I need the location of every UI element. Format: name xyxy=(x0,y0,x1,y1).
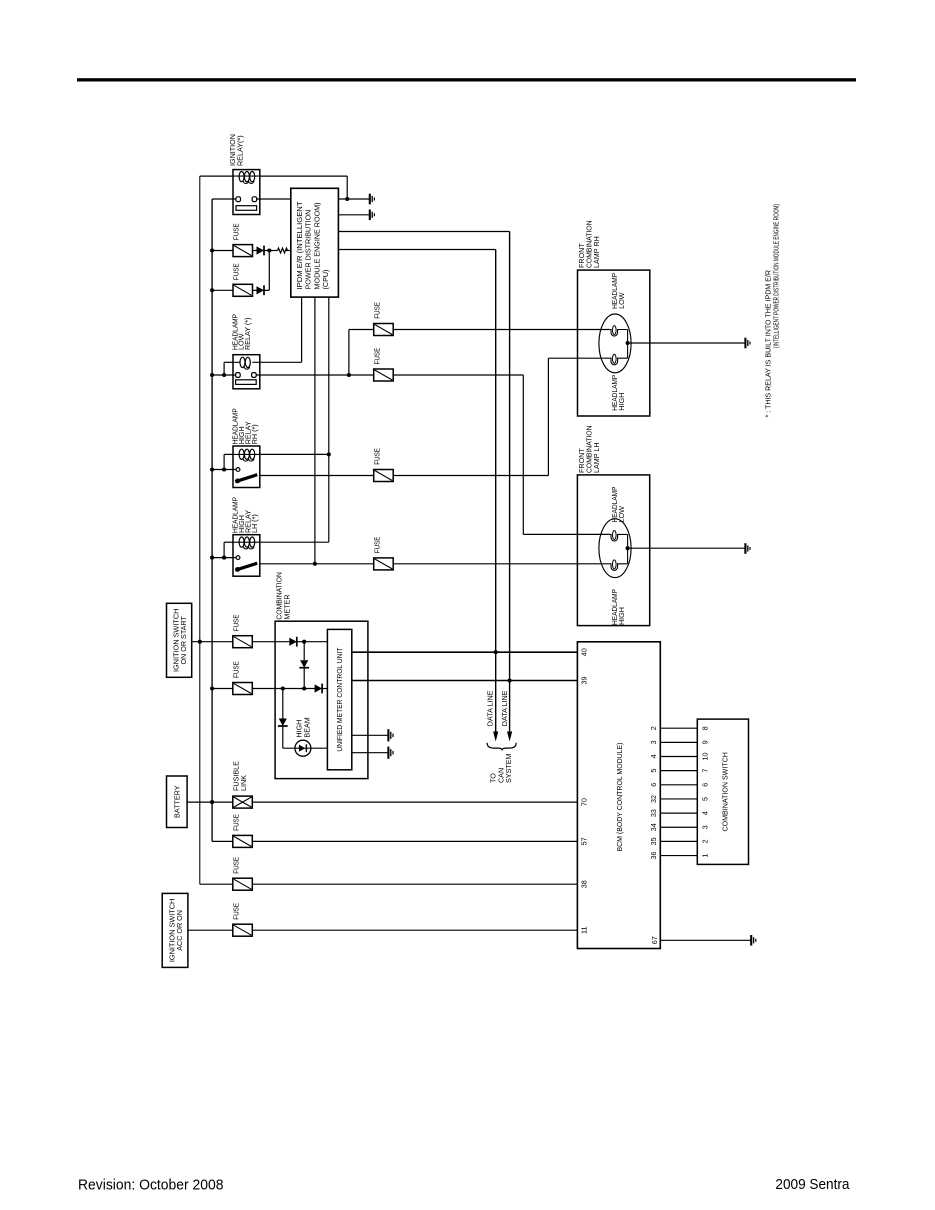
headlamp high relay LH coil xyxy=(233,541,260,543)
wire BCM pin 5 to combination switch pin 7 xyxy=(660,770,697,772)
wire fuse 11 to BCM pin 11 xyxy=(253,929,578,931)
svg-text:HIGH: HIGH xyxy=(617,393,626,411)
svg-text:36: 36 xyxy=(649,852,658,860)
junction coil feed RH xyxy=(327,452,331,456)
diode meter D3 xyxy=(315,684,323,692)
wire IPDM ground 1 xyxy=(338,198,369,200)
wire BCM pin 67 to ground xyxy=(660,939,751,941)
wire ign sw acc to fuse 11 xyxy=(188,929,233,931)
diode meter D2 down xyxy=(300,660,308,668)
combination switch box xyxy=(697,719,748,864)
wire RH relay coil stub xyxy=(224,453,233,455)
svg-text:SYSTEM: SYSTEM xyxy=(504,753,513,783)
diode high beam down xyxy=(279,719,287,727)
wire RH relay output to fuse xyxy=(260,475,374,477)
junction data line 2 row 39 xyxy=(508,678,512,682)
svg-text:LAMP RH: LAMP RH xyxy=(592,236,601,268)
ground lamp LH xyxy=(744,543,746,554)
junction RH relay stub xyxy=(222,467,226,471)
diode D1 xyxy=(257,246,265,254)
svg-text:70: 70 xyxy=(580,798,589,806)
svg-text:DATA LINE: DATA LINE xyxy=(500,690,509,726)
wire BCM pin 3 to combination switch pin 9 xyxy=(660,741,697,743)
junction coil-ground xyxy=(345,197,349,201)
headlamp high relay RH box xyxy=(233,446,260,488)
svg-text:ACC OR ON: ACC OR ON xyxy=(175,910,184,951)
svg-text:POWER DISTRIBUTION: POWER DISTRIBUTION xyxy=(304,210,313,290)
fuse meter1 xyxy=(233,636,253,648)
svg-text:(INTELLIGENT POWER DISTRIBUTIO: (INTELLIGENT POWER DISTRIBUTION MODULE E… xyxy=(771,204,780,348)
headlamp high relay RH coil xyxy=(233,453,260,455)
svg-text:38: 38 xyxy=(580,880,589,888)
wire ignition relay contact left to rail A2 xyxy=(212,198,236,200)
wire BCM pin 32 to combination switch pin 5 xyxy=(660,798,697,800)
svg-text:UNIFIED METER CONTROL UNIT: UNIFIED METER CONTROL UNIT xyxy=(335,647,344,752)
headlamp high relay RH contact xyxy=(236,468,240,472)
junction A2 LH relay xyxy=(210,556,214,560)
svg-text:57: 57 xyxy=(580,837,589,845)
svg-text:FUSE: FUSE xyxy=(372,448,381,465)
top horizontal rule xyxy=(77,78,856,81)
svg-text:32: 32 xyxy=(649,795,658,803)
svg-text:11: 11 xyxy=(580,926,589,933)
svg-text:10: 10 xyxy=(700,753,709,761)
junction A2 low relay xyxy=(210,373,214,377)
junction meter D1 xyxy=(302,640,306,644)
wire fuse LH low to jog xyxy=(393,374,523,376)
svg-text:FUSE: FUSE xyxy=(231,814,240,831)
svg-text:3: 3 xyxy=(700,825,709,829)
svg-text:34: 34 xyxy=(649,823,658,831)
data line arrow 1 xyxy=(493,732,498,742)
svg-text:LAMP LH: LAMP LH xyxy=(592,442,601,473)
ground IPDM 2 xyxy=(369,210,371,221)
svg-text:(CPU): (CPU) xyxy=(321,270,330,290)
svg-text:FUSE: FUSE xyxy=(372,302,381,319)
ignition relay contacts xyxy=(236,197,241,202)
junction A2 battery xyxy=(210,800,214,804)
headlamp high relay LH box xyxy=(233,535,260,577)
wire meter output 39 xyxy=(352,680,578,682)
svg-text:3: 3 xyxy=(649,740,658,744)
svg-text:9: 9 xyxy=(700,740,709,744)
wire low relay output xyxy=(256,374,374,376)
wire LH relay coil stub xyxy=(224,541,233,543)
fuse 57 xyxy=(233,835,253,847)
wire RH high jog xyxy=(547,358,549,475)
front combination lamp RH box xyxy=(578,270,650,416)
svg-text:40: 40 xyxy=(580,648,589,656)
fuse LH low xyxy=(374,369,394,381)
front combination lamp LH box xyxy=(577,475,649,626)
headlamp high relay LH blade xyxy=(235,563,257,570)
svg-text:33: 33 xyxy=(649,809,658,817)
svg-text:FUSE: FUSE xyxy=(232,263,241,280)
wire A2 to RH relay contact xyxy=(212,469,236,471)
wire fuse F1 to diode D1 xyxy=(253,250,257,252)
bulb LH high filament xyxy=(613,560,617,569)
wire coil feed RH xyxy=(260,453,329,455)
headlamp low relay coil xyxy=(233,361,240,363)
svg-text:RELAY(*): RELAY(*) xyxy=(235,135,244,166)
wire meter output 40 xyxy=(352,651,578,653)
wire LH low jog xyxy=(522,375,524,534)
wire CAN-H vertical data line xyxy=(509,232,511,734)
junction low relay stub xyxy=(222,373,226,377)
brace to CAN system xyxy=(487,743,516,751)
svg-text:RELAY (*): RELAY (*) xyxy=(243,318,252,351)
svg-text:LOW: LOW xyxy=(617,292,626,309)
wire diode D1 to junction xyxy=(264,250,278,252)
ignition switch on-start box xyxy=(167,603,192,677)
wire BCM pin 34 to combination switch pin 3 xyxy=(660,826,697,828)
fuse RH low xyxy=(374,324,394,336)
BCM box xyxy=(577,642,660,949)
resistor (coil) into IPDM xyxy=(278,248,288,253)
wire diode D3 to unified unit xyxy=(322,688,327,690)
svg-text:IPDM E/R (INTELLIGENT: IPDM E/R (INTELLIGENT xyxy=(295,201,304,290)
bulb LH envelope xyxy=(599,519,631,578)
junction diodes xyxy=(267,248,271,252)
ground BCM xyxy=(750,935,752,946)
svg-text:COMBINATION SWITCH: COMBINATION SWITCH xyxy=(721,752,730,832)
junction IPDM sense LH high xyxy=(313,562,317,566)
svg-text:FUSE: FUSE xyxy=(232,223,241,240)
svg-text:FUSE: FUSE xyxy=(231,903,240,920)
svg-text:2009 Sentra: 2009 Sentra xyxy=(775,1176,850,1193)
ignition switch acc-on box xyxy=(162,893,188,967)
svg-text:BCM (BODY CONTROL MODULE): BCM (BODY CONTROL MODULE) xyxy=(615,743,624,852)
svg-text:FUSE: FUSE xyxy=(231,857,240,874)
wire bulb LH to ground xyxy=(628,547,746,549)
wire BCM pin 6 to combination switch pin 6 xyxy=(660,784,697,786)
wire low relay coil stub xyxy=(224,361,233,363)
fuse meter2 xyxy=(233,683,253,695)
svg-text:BEAM: BEAM xyxy=(303,717,312,737)
headlamp high relay LH contact xyxy=(236,556,240,560)
fuse RH high xyxy=(374,470,394,482)
data line arrow 2 xyxy=(507,732,512,742)
svg-text:35: 35 xyxy=(649,837,658,845)
svg-text:FUSE: FUSE xyxy=(372,348,381,365)
wire A2 to fuse F1 xyxy=(212,250,233,252)
ignition relay coil xyxy=(233,175,260,177)
junction A2 RH relay xyxy=(210,467,214,471)
svg-text:4: 4 xyxy=(700,811,709,815)
wire bulb RH to ground xyxy=(628,342,746,344)
wire LH relay output to fuse xyxy=(260,563,374,565)
wire diode D2 up to diode junction xyxy=(264,289,269,291)
bulb LH low filament xyxy=(613,531,617,540)
wire A2 to LH relay contact xyxy=(212,557,236,559)
svg-text:1: 1 xyxy=(700,854,709,858)
fuse LH high xyxy=(374,558,394,570)
bulb RH envelope xyxy=(599,314,631,373)
junction A2-F1 xyxy=(210,248,214,252)
fuse 11 xyxy=(233,924,253,936)
svg-text:FUSE: FUSE xyxy=(231,614,240,631)
svg-text:6: 6 xyxy=(649,783,658,787)
wire BCM pin 36 to combination switch pin 1 xyxy=(660,855,697,857)
junction high beam branch xyxy=(281,686,285,690)
svg-text:2: 2 xyxy=(649,726,658,730)
wire battery to fusible link xyxy=(187,801,233,803)
svg-text:4: 4 xyxy=(649,755,658,759)
junction LH relay stub xyxy=(222,556,226,560)
svg-text:FUSE: FUSE xyxy=(231,661,240,678)
svg-text:67: 67 xyxy=(650,936,659,944)
ground meter 1 xyxy=(387,729,389,741)
svg-text:FUSE: FUSE xyxy=(372,536,381,553)
fusible link xyxy=(233,796,253,808)
bulb LH bracket xyxy=(627,534,629,563)
wire BCM pin 33 to combination switch pin 4 xyxy=(660,812,697,814)
wire fusible link to BCM pin 70 xyxy=(253,801,578,803)
wire fuse 38 to BCM pin 38 xyxy=(253,883,578,885)
wire A1 to fuse 38 xyxy=(200,883,233,885)
wire IPDM CAN-H to corner xyxy=(338,231,509,233)
junction A2-F2 xyxy=(210,288,214,292)
svg-text:5: 5 xyxy=(649,769,658,773)
fuse F2 xyxy=(233,284,253,296)
wire meter ground 1 xyxy=(352,734,389,736)
junction data line 1 row 40 xyxy=(494,650,498,654)
fuse F1 xyxy=(233,245,253,257)
junction meter D2-D3 xyxy=(302,686,306,690)
wire ignition relay coil left to rail A1 xyxy=(200,175,234,177)
combination meter box xyxy=(275,621,368,778)
wire A2 to low relay contact xyxy=(212,374,236,376)
wire fuse RH low to lamp xyxy=(393,329,609,331)
wire high beam branch vertical xyxy=(282,689,284,719)
svg-text:2: 2 xyxy=(700,839,709,843)
battery box xyxy=(167,776,188,828)
svg-text:METER: METER xyxy=(282,594,291,619)
wire CAN-L vertical data line xyxy=(495,250,497,734)
svg-text:MODULE ENGINE ROOM): MODULE ENGINE ROOM) xyxy=(312,202,321,289)
svg-text:HIGH: HIGH xyxy=(617,607,626,625)
junction A2 battery-meter fuse xyxy=(210,686,214,690)
wire diode to unified unit xyxy=(297,641,328,643)
wire IPDM to headlamp low relay coil xyxy=(301,297,303,362)
headlamp low relay box xyxy=(233,355,260,389)
svg-text:Revision: October 2008: Revision: October 2008 xyxy=(78,1177,224,1194)
wire IPDM to high relay coils xyxy=(328,297,330,542)
wire rail A2 vertical xyxy=(211,199,213,841)
junction bulb LH xyxy=(626,546,630,550)
wire fuse 57 to BCM pin 57 xyxy=(253,840,578,842)
IPDM E/R box xyxy=(291,188,339,297)
wire fuse meter1 to diode xyxy=(253,641,290,643)
wire IPDM CAN-L to corner xyxy=(338,249,495,251)
svg-text:7: 7 xyxy=(700,769,709,773)
ground lamp RH xyxy=(744,338,746,349)
junction bulb RH xyxy=(626,341,630,345)
high beam indicator bulb xyxy=(283,747,328,749)
wire meter diode chain vertical xyxy=(303,642,305,661)
wire ignition relay coil right to ground junction xyxy=(260,175,348,177)
junction low relay output split xyxy=(347,373,351,377)
wire BCM pin 2 to combination switch pin 8 xyxy=(660,727,697,729)
svg-text:6: 6 xyxy=(700,783,709,787)
wire ignition relay contact right to IPDM xyxy=(256,198,291,200)
ground meter 2 xyxy=(387,747,389,759)
bulb RH high filament xyxy=(613,354,617,363)
diode meter D1 xyxy=(289,638,297,646)
svg-text:LINK: LINK xyxy=(239,775,248,791)
svg-text:DATA LINE: DATA LINE xyxy=(485,690,494,726)
headlamp low relay contacts xyxy=(236,373,241,378)
wire IPDM to high beam lamp line xyxy=(314,297,316,564)
wire ign sw to fuse meter1 xyxy=(192,641,233,643)
ignition relay box xyxy=(233,170,260,215)
wire up to RH low fuse xyxy=(348,330,350,376)
wire coil feed LH xyxy=(260,541,329,543)
wire fuse RH high to jog xyxy=(393,475,548,477)
wire BCM pin 35 to combination switch pin 2 xyxy=(660,840,697,842)
bulb RH bracket xyxy=(627,330,629,359)
svg-text:ON OR START: ON OR START xyxy=(179,615,188,664)
svg-text:LH (*): LH (*) xyxy=(250,514,259,533)
wire A2 to fuse meter2 xyxy=(212,688,233,690)
wire fuse LH high to lamp xyxy=(393,563,609,565)
wire fuse meter2 to diode meter D3 xyxy=(253,688,315,690)
unified meter control unit box xyxy=(327,629,351,769)
wire A2 to fuse F2 xyxy=(212,289,233,291)
wire BCM pin 4 to combination switch pin 10 xyxy=(660,756,697,758)
svg-text:RH (*): RH (*) xyxy=(250,424,259,444)
diode D2 xyxy=(257,286,265,294)
svg-text:5: 5 xyxy=(700,797,709,801)
fuse 38 xyxy=(233,878,253,890)
wire meter ground 2 xyxy=(352,752,389,754)
ground IPDM 1 xyxy=(369,194,371,205)
wire fuse F2 to diode D2 xyxy=(253,289,257,291)
junction A1 ign feed xyxy=(198,640,202,644)
svg-text:39: 39 xyxy=(580,677,589,685)
wire A2 to fuse 57 xyxy=(212,840,233,842)
wire IPDM ground 2 xyxy=(338,214,369,216)
bulb RH low filament xyxy=(613,326,617,335)
wire rail A1 vertical xyxy=(199,176,201,884)
headlamp high relay RH blade xyxy=(235,475,257,482)
svg-text:BATTERY: BATTERY xyxy=(173,785,182,818)
svg-text:8: 8 xyxy=(700,726,709,730)
